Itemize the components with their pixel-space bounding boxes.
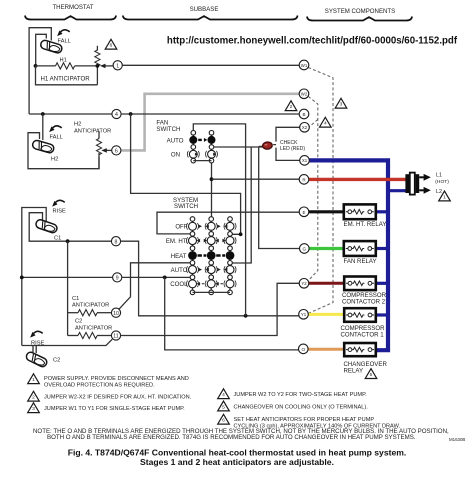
svg-text:X1: X1 [302, 158, 308, 163]
wire H1 inner lead [36, 34, 47, 66]
wire B drop to system col3 sub-off contact [131, 114, 241, 234]
wire H1 anticipator bottom loop [36, 66, 98, 85]
system switch bottom bar [193, 291, 231, 293]
wire terminal 11 to Y2 [121, 283, 300, 335]
svg-text:2: 2 [290, 104, 293, 110]
red wire R to transformer [309, 178, 407, 181]
svg-text:CONTACTOR 1: CONTACTOR 1 [341, 332, 385, 339]
svg-text:LED (RED): LED (RED) [280, 146, 305, 152]
wiper arrow from terminal 1 [105, 65, 113, 67]
svg-text:ON: ON [171, 152, 180, 159]
mercury bulb C1 [35, 219, 58, 234]
terminal 1 [113, 61, 122, 70]
relay changeover [344, 343, 376, 356]
node junction O drop [163, 276, 167, 280]
brace SYSTEM COMPONENTS [307, 17, 412, 21]
jumper W1 to Y1 (dashed) [308, 68, 333, 314]
check LED (red) [262, 142, 272, 150]
dark red wire Y2 to relay [309, 282, 344, 285]
svg-text:POWER SUPPLY. PROVIDE DISCONNE: POWER SUPPLY. PROVIDE DISCONNECT MEANS A… [44, 376, 189, 382]
terminal X2 [300, 123, 310, 133]
node junction left bus 9 [20, 276, 24, 280]
svg-text:Y1: Y1 [301, 312, 307, 317]
fall arrow H1 [57, 30, 70, 36]
HEAT position links [198, 254, 226, 257]
arrow L2 [419, 189, 424, 191]
svg-text:2: 2 [32, 395, 35, 401]
terminal 8 [111, 237, 120, 246]
svg-text:G: G [303, 247, 307, 252]
wire R line [212, 178, 300, 180]
wire fan feeder [193, 124, 245, 316]
resistor H1 anticipator [56, 63, 75, 69]
wire C1 anticipator to terminal 10 [97, 312, 111, 314]
svg-text:L2: L2 [436, 189, 442, 195]
svg-text:L1: L1 [436, 173, 442, 179]
wire left bus to terminal 4 [29, 113, 112, 115]
svg-text:AUTO: AUTO [171, 267, 188, 274]
wire to resistor H1 [36, 65, 56, 67]
svg-text:C1: C1 [72, 296, 79, 302]
resistor C1 anticipator [78, 310, 97, 316]
note triangle 1 [28, 374, 40, 384]
svg-text:H2: H2 [51, 157, 58, 163]
svg-text:3: 3 [32, 406, 35, 412]
terminal W1 [299, 60, 309, 70]
COOL row arrows [198, 283, 225, 285]
svg-text:11: 11 [113, 334, 118, 340]
svg-text:EM. HT.: EM. HT. [166, 238, 188, 245]
wire to C1 anticipator [68, 312, 78, 314]
node junction H1 [34, 64, 38, 68]
svg-text:4: 4 [324, 121, 327, 127]
wire H2 bulb lead [42, 114, 44, 140]
svg-text:EM. HT. RELAY: EM. HT. RELAY [344, 221, 387, 228]
svg-text:C1: C1 [54, 235, 61, 241]
yellow wire Y1 to relay [308, 313, 344, 316]
node pot wiper H1 [96, 64, 100, 68]
wire terminal 4 to B [121, 113, 299, 115]
svg-text:SYSTEM COMPONENTS: SYSTEM COMPONENTS [325, 8, 395, 15]
wire system col1 sub-heat to terminal 10 [119, 263, 190, 309]
warning triangle 3 [335, 98, 347, 108]
note triangle 6 [218, 414, 230, 424]
jumper W2 to Y2 (dashed) [308, 97, 318, 282]
terminal G [300, 244, 310, 254]
svg-text:ANTICIPATOR: ANTICIPATOR [74, 129, 111, 135]
svg-text:FAN RELAY: FAN RELAY [344, 258, 377, 265]
svg-text:BOTH O AND B TERMINALS ARE ENE: BOTH O AND B TERMINALS ARE ENERGIZED. T8… [47, 434, 416, 441]
switch contact paren marks [187, 223, 199, 230]
svg-text:6: 6 [115, 149, 118, 155]
svg-text:5: 5 [370, 372, 373, 378]
svg-text:RISE: RISE [53, 209, 66, 215]
svg-text:B: B [302, 112, 305, 117]
wire resistor to pot H1 [75, 65, 98, 67]
system switch column 2 [210, 217, 212, 295]
svg-text:JUMPER W2-X2 IF DESIRED FOR AU: JUMPER W2-X2 IF DESIRED FOR AUX. HT. IND… [44, 395, 192, 401]
warning triangle 5 [365, 369, 377, 379]
svg-text:JUMPER W1 TO Y1 FOR SINGLE-STA: JUMPER W1 TO Y1 FOR SINGLE-STAGE HEAT PU… [44, 406, 185, 412]
svg-text:1: 1 [443, 194, 446, 200]
terminal 6 [112, 146, 121, 155]
mercury bulb C2 [25, 351, 48, 368]
fan switch bottom bar [193, 160, 211, 162]
warning triangle 1 [439, 191, 451, 201]
svg-text:SWITCH: SWITCH [174, 203, 198, 210]
potentiometer element H2 [98, 132, 100, 169]
svg-text:1: 1 [116, 63, 119, 69]
wire drop to system col3 sub-heat contact [232, 147, 251, 263]
terminal 11 [111, 331, 120, 340]
jumper W2-X2 branch (dashed) [310, 120, 318, 127]
terminal Y2 [299, 279, 309, 289]
wire terminal 8 to Y1 [121, 241, 299, 316]
svg-text:E: E [302, 210, 305, 215]
svg-text:X2: X2 [302, 125, 308, 130]
svg-text:(HOT): (HOT) [435, 179, 449, 185]
svg-text:4: 4 [115, 112, 118, 118]
rise arrow C2 [30, 331, 43, 337]
wire C1 outer loop [22, 208, 46, 346]
svg-text:OVERLOAD PROTECTION AS REQUIRE: OVERLOAD PROTECTION AS REQUIRED. [44, 383, 155, 389]
wire H1 outer loop [29, 28, 51, 114]
green wire G to relay [309, 247, 344, 250]
wire anticipator bus vertical [67, 241, 69, 335]
check LED bracket wire [276, 127, 300, 160]
OFF row arrows [199, 225, 203, 229]
node junction C1 [66, 239, 70, 243]
relay compressor contactor 2 [344, 277, 376, 291]
svg-text:JUMPER W2 TO Y2 FOR TWO-STAGE: JUMPER W2 TO Y2 FOR TWO-STAGE HEAT PUMP. [234, 392, 368, 398]
wire E line to system col1 sub-off contact [157, 212, 299, 234]
blue stub compressor contactor 1 [376, 313, 388, 316]
arrow L1 [419, 176, 424, 178]
svg-text:THERMOSTAT: THERMOSTAT [52, 4, 93, 11]
orange wire O to relay [308, 348, 344, 351]
svg-text:ANTICIPATOR: ANTICIPATOR [75, 325, 112, 331]
system switch column 3 [229, 217, 231, 295]
svg-text:C2: C2 [53, 357, 60, 363]
terminal B [299, 109, 309, 119]
terminal O [299, 344, 309, 354]
svg-text:M1630B: M1630B [449, 437, 465, 442]
svg-text:http://customer.honeywell.com/: http://customer.honeywell.com/techlit/pd… [167, 36, 458, 47]
relay FAN [344, 241, 376, 256]
svg-text:Fig. 4. T874D/Q674F Convention: Fig. 4. T874D/Q674F Conventional heat-co… [68, 448, 407, 458]
fan switch column 2 [211, 133, 213, 163]
svg-text:OFF: OFF [175, 224, 187, 231]
svg-text:CONTACTOR 2: CONTACTOR 2 [342, 299, 386, 306]
svg-text:AUTO: AUTO [167, 137, 184, 144]
wire C2 bulb line [22, 339, 113, 345]
wire C1 inner lead [29, 213, 111, 242]
wire to C2 anticipator [68, 335, 78, 337]
rise arrow C1 [52, 200, 65, 206]
warning triangle 2 [285, 101, 297, 111]
node junction col3 sub-off [239, 232, 243, 236]
svg-text:9: 9 [116, 276, 119, 282]
note triangle 3 [28, 403, 40, 413]
node junction H2 branch [41, 112, 45, 116]
note triangle 4 [218, 389, 230, 399]
AUTO row arrows [199, 268, 203, 272]
svg-text:SET HEAT ANTICIPATORS FOR PROP: SET HEAT ANTICIPATORS FOR PROPER HEAT PU… [234, 417, 375, 423]
svg-text:RELAY: RELAY [344, 368, 364, 375]
wire C2 anticipator to terminal 11 [97, 335, 111, 337]
wire LED left lead [259, 145, 276, 147]
blue bus from X1 [309, 160, 388, 350]
brace THERMOSTAT [25, 16, 116, 20]
svg-text:3: 3 [340, 102, 343, 108]
wire terminal 9 to O [165, 277, 299, 350]
fan ON position arrows [195, 153, 198, 156]
svg-text:FALL: FALL [50, 135, 63, 141]
relay compressor contactor 1 [344, 308, 376, 322]
note triangle 2 [28, 391, 40, 401]
node junction B drop [129, 112, 133, 116]
wire H2 frame [28, 133, 99, 169]
svg-text:6: 6 [222, 418, 225, 424]
svg-text:C2: C2 [75, 319, 82, 325]
terminal 4 [112, 109, 121, 118]
warning triangle 6 [105, 39, 117, 49]
mercury bulb H2 [32, 139, 55, 153]
svg-text:1: 1 [32, 377, 35, 383]
resistor C2 anticipator [78, 332, 97, 338]
wire fan common to system switch col2 [211, 163, 213, 217]
terminal 10 [111, 308, 120, 317]
node junction fan feeder on Y1 wire [244, 314, 248, 318]
svg-text:Stages 1 and 2 heat anticipato: Stages 1 and 2 heat anticipators are adj… [140, 457, 334, 467]
transformer / power plug [405, 174, 409, 193]
blue stub EM HT relay [376, 210, 388, 213]
blue stub FAN relay [376, 247, 388, 250]
fall arrow H2 [49, 126, 62, 132]
wire terminal 9 to switch [122, 276, 190, 278]
svg-text:10: 10 [113, 311, 119, 317]
note triangle 5 [218, 401, 230, 411]
svg-text:8: 8 [115, 239, 118, 245]
terminal E [299, 207, 309, 217]
node junction R tap [210, 177, 214, 181]
svg-text:FALL: FALL [58, 39, 71, 45]
wire terminal 1 to W1 [122, 64, 299, 66]
svg-text:RISE: RISE [31, 340, 44, 346]
svg-text:SUBBASE: SUBBASE [190, 6, 219, 13]
relay EM HT [344, 204, 376, 219]
svg-text:SWITCH: SWITCH [156, 126, 180, 133]
wire drop to G [259, 147, 300, 249]
svg-text:CHANGEOVER ON COOLING ONLY (O: CHANGEOVER ON COOLING ONLY (O TERMINAL). [234, 404, 369, 410]
svg-text:HEAT: HEAT [171, 253, 187, 260]
wire left bus to terminal 9 [22, 276, 113, 278]
svg-text:4: 4 [222, 392, 225, 398]
wire W2 grey path from terminal 6 [121, 94, 299, 151]
brace SUBBASE [123, 16, 298, 20]
svg-text:W2: W2 [301, 92, 308, 97]
system switch column 1 [192, 217, 194, 295]
terminal W2 [299, 89, 309, 99]
svg-text:W1: W1 [301, 63, 308, 68]
potentiometer element H1 [96, 46, 98, 85]
svg-text:COOL: COOL [170, 281, 188, 288]
fan switch column 1 [192, 130, 194, 162]
terminal Y1 [299, 310, 309, 320]
blue stub compressor contactor 2 [376, 282, 388, 285]
mercury bulb H1 [40, 39, 63, 54]
svg-text:ANTICIPATOR: ANTICIPATOR [72, 303, 109, 309]
EM HT row arrows [197, 239, 201, 243]
wire fan switch middle contact to LED [214, 146, 263, 148]
svg-text:6: 6 [110, 43, 113, 49]
terminal 9 [113, 273, 122, 282]
wiper arrow from terminal 6 [101, 148, 107, 153]
black wire E to relay [309, 210, 344, 213]
blue stub transformer [388, 189, 406, 192]
warning triangle 4 [320, 117, 332, 127]
terminal R [299, 175, 309, 185]
svg-text:5: 5 [222, 404, 225, 410]
wire C2 bulb leads [33, 346, 36, 354]
terminal X1 [300, 156, 310, 166]
svg-text:H1 ANTICIPATOR: H1 ANTICIPATOR [41, 76, 91, 83]
svg-text:H2: H2 [74, 122, 81, 128]
svg-text:O: O [302, 347, 306, 352]
fan AUTO position link [198, 139, 202, 141]
svg-text:Y2: Y2 [301, 281, 307, 286]
